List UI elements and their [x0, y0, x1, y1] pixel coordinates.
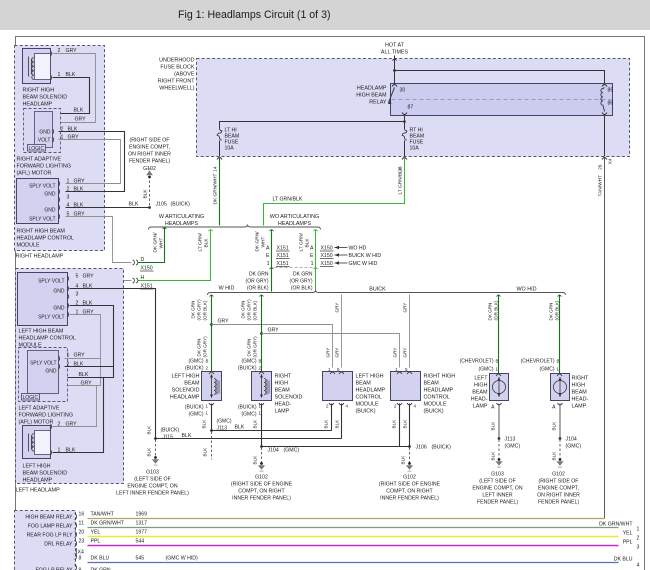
- svg-text:4: 4: [346, 404, 349, 409]
- svg-text:16: 16: [79, 512, 85, 518]
- svg-text:GRY: GRY: [75, 117, 87, 123]
- svg-text:J104: J104: [566, 437, 577, 443]
- ground wire dashed to G102 mid1: [261, 448, 263, 463]
- svg-text:DRL RELAY: DRL RELAY: [44, 542, 73, 548]
- module left high beam headlamp control module: [18, 273, 68, 326]
- svg-text:X151: X151: [277, 253, 289, 259]
- pin 8 DK BLU: [75, 554, 77, 560]
- label right high beam headlamp control module: [17, 229, 74, 249]
- svg-text:HEADLAMP: HEADLAMP: [356, 388, 386, 394]
- svg-text:B: B: [496, 359, 499, 364]
- svg-text:HEAD-: HEAD-: [471, 397, 488, 403]
- solenoid L2 RIGHT HIGH BEAM SOLENOID HEAD-LAMP: [252, 372, 272, 401]
- svg-text:(BUICK): (BUICK): [238, 405, 257, 411]
- svg-text:LAMP: LAMP: [572, 404, 587, 410]
- svg-text:1: 1: [58, 448, 61, 454]
- svg-text:(GMC): (GMC): [217, 419, 232, 425]
- svg-text:LEFT HIGH: LEFT HIGH: [171, 374, 199, 380]
- svg-text:GRY: GRY: [218, 319, 230, 325]
- bracket 2: [208, 290, 566, 295]
- svg-text:BEAM: BEAM: [472, 390, 488, 396]
- svg-text:1977: 1977: [136, 530, 148, 536]
- svg-text:LEFT HIGH: LEFT HIGH: [23, 464, 51, 470]
- svg-text:BLK: BLK: [392, 419, 397, 429]
- svg-text:RIGHT FRONT: RIGHT FRONT: [158, 79, 195, 85]
- svg-text:DK BLU: DK BLU: [91, 556, 110, 562]
- svg-text:BLK: BLK: [74, 187, 84, 193]
- relay U1 HEADLAMP HIGH BEAM RELAY: [356, 84, 612, 116]
- wire BLK solenoid pin1 loop: [53, 78, 90, 114]
- svg-text:DK GRN: DK GRN: [549, 303, 554, 321]
- AFL motor dashed box: [24, 109, 61, 153]
- connector exit carets: [217, 158, 222, 160]
- svg-text:COMPT, ON RIGHT: COMPT, ON RIGHT: [386, 489, 433, 495]
- wire from HOT AT ALL TIMES to relay pin 30: [394, 56, 396, 84]
- junction: [210, 323, 213, 326]
- wire DK GRN/WHT stack X151: [271, 230, 273, 292]
- junction: [260, 332, 263, 335]
- pin 86: [602, 113, 607, 115]
- box1 bottom pin wire: [209, 403, 214, 405]
- svg-text:LEFT ADAPTIVE: LEFT ADAPTIVE: [19, 406, 60, 412]
- node HOT AT ALL TIMES: [381, 43, 409, 56]
- svg-text:(OR BLK): (OR BLK): [555, 300, 560, 320]
- svg-text:RIGHT HIGH BEAM: RIGHT HIGH BEAM: [17, 229, 66, 235]
- underhood fuse block label: [158, 58, 195, 92]
- label lamp DS2: [572, 376, 589, 410]
- svg-text:5: 5: [76, 274, 79, 280]
- svg-text:1: 1: [206, 404, 209, 409]
- svg-text:LT GRN/BLK: LT GRN/BLK: [273, 197, 303, 203]
- svg-text:DK GRN: DK GRN: [293, 272, 313, 278]
- svg-text:CONTROL: CONTROL: [424, 395, 450, 401]
- svg-text:J113: J113: [505, 437, 516, 443]
- pin 3: [59, 197, 60, 202]
- svg-text:HEADLAMP: HEADLAMP: [424, 388, 454, 394]
- svg-text:(GMC): (GMC): [505, 444, 521, 450]
- svg-text:BLK: BLK: [235, 425, 245, 431]
- ground G103 mid-left: [154, 456, 157, 459]
- svg-text:HOT AT: HOT AT: [385, 43, 405, 49]
- connector X150 pin D: [133, 260, 138, 265]
- junction J106: [408, 445, 411, 448]
- svg-text:ENGINE COMPT, ON: ENGINE COMPT, ON: [127, 484, 177, 490]
- wire BLK module pin4 to J115: [70, 289, 156, 439]
- junction J115: [154, 437, 157, 440]
- option link dashed: [270, 268, 274, 269]
- junction J104 mid: [260, 445, 263, 448]
- svg-text:(ABOVE: (ABOVE: [174, 72, 195, 78]
- svg-text:BUICK W HID: BUICK W HID: [349, 253, 382, 259]
- svg-text:3: 3: [76, 292, 79, 298]
- svg-text:DK GRN: DK GRN: [191, 301, 196, 319]
- svg-text:(OR BLK): (OR BLK): [291, 286, 313, 292]
- svg-text:WHEELWELL): WHEELWELL): [159, 86, 194, 92]
- svg-text:BLK: BLK: [129, 202, 139, 208]
- svg-text:(OR GRY): (OR GRY): [253, 336, 258, 358]
- svg-text:(BUICK): (BUICK): [171, 202, 191, 208]
- svg-text:HEADLAMPS: HEADLAMPS: [165, 221, 199, 227]
- svg-text:BLK: BLK: [147, 425, 152, 435]
- svg-text:X150: X150: [141, 266, 153, 272]
- svg-text:LT GRN/BLK: LT GRN/BLK: [398, 166, 404, 194]
- svg-text:DK GRN: DK GRN: [249, 272, 269, 278]
- svg-text:G102: G102: [552, 472, 565, 478]
- svg-text:(GMC): (GMC): [566, 444, 582, 450]
- svg-text:X151: X151: [277, 246, 289, 252]
- svg-text:HEADLAMP: HEADLAMP: [23, 102, 53, 108]
- svg-text:2: 2: [326, 404, 329, 409]
- svg-text:MODULE: MODULE: [17, 243, 40, 249]
- svg-text:(AFL) MOTOR: (AFL) MOTOR: [17, 171, 52, 177]
- lamp DS1 bottom pin A wire: [497, 403, 502, 405]
- svg-text:(CHEVROLET): (CHEVROLET): [521, 359, 555, 365]
- wire GRY drop to box4 pin5: [409, 295, 411, 368]
- svg-text:BEAM SOLENOID: BEAM SOLENOID: [23, 95, 68, 101]
- svg-text:J115: J115: [163, 435, 174, 441]
- svg-text:BLK: BLK: [253, 455, 258, 465]
- svg-text:J105: J105: [156, 202, 167, 208]
- wire GRY module pin1 down: [68, 315, 101, 386]
- svg-text:GRY: GRY: [74, 353, 86, 359]
- svg-text:30: 30: [400, 88, 406, 94]
- wire LT GRN/BLK stack X150: [315, 230, 317, 292]
- wire BLK module pin2 down: [68, 306, 114, 378]
- logic box left: [22, 394, 40, 401]
- junction J104 right: [559, 437, 562, 440]
- svg-text:G102: G102: [143, 166, 156, 172]
- svg-text:GRY: GRY: [83, 274, 95, 280]
- svg-text:LEFT HIGH: LEFT HIGH: [356, 374, 384, 380]
- svg-text:A: A: [491, 405, 495, 411]
- svg-text:RIGHT HIGH: RIGHT HIGH: [23, 88, 55, 94]
- svg-text:1: 1: [267, 261, 270, 267]
- wire GRY drop to box3 pin5: [341, 295, 343, 368]
- wire DK GRN drop 2: [261, 295, 263, 372]
- svg-text:G103: G103: [491, 472, 504, 478]
- svg-text:DK GRN/: DK GRN/: [153, 232, 159, 253]
- svg-text:A: A: [266, 246, 270, 252]
- svg-text:(CHEVROLET): (CHEVROLET): [460, 359, 494, 365]
- label module M2: [424, 374, 456, 415]
- svg-text:ON RIGHT INNER: ON RIGHT INNER: [128, 152, 171, 158]
- svg-text:BLK: BLK: [74, 108, 84, 114]
- svg-text:SPLY VOLT: SPLY VOLT: [30, 361, 56, 367]
- svg-text:X4: X4: [608, 158, 614, 164]
- svg-text:(LEFT SIDE OF: (LEFT SIDE OF: [134, 477, 171, 483]
- svg-text:ENGINE COMPT, ON: ENGINE COMPT, ON: [472, 486, 522, 492]
- pin 4 BLK: [68, 286, 69, 291]
- option arrow BUICK W HID: [335, 254, 348, 256]
- svg-text:SOLENOID: SOLENOID: [275, 395, 303, 401]
- svg-text:RIGHT ADAPTIVE: RIGHT ADAPTIVE: [17, 157, 62, 163]
- svg-text:H: H: [141, 275, 145, 281]
- wire GRY branch 1 to box3 pin1: [212, 325, 333, 368]
- module right high beam headlamp control module: [17, 179, 59, 224]
- svg-text:GRY: GRY: [74, 179, 86, 185]
- svg-text:BEAM: BEAM: [424, 381, 440, 387]
- lamp DS1 LEFT HIGH BEAM HEADLAMP: [490, 374, 509, 401]
- svg-text:545: 545: [136, 556, 145, 562]
- svg-text:FORWARD LIGHTING: FORWARD LIGHTING: [19, 413, 74, 419]
- svg-text:26: 26: [598, 164, 604, 170]
- svg-text:1317: 1317: [136, 521, 148, 527]
- svg-text:FORWARD LIGHTING: FORWARD LIGHTING: [17, 164, 72, 170]
- svg-text:DK GRN: DK GRN: [241, 301, 246, 319]
- wire label DK GRN (OR GRY)(OR BLK) left stack: [246, 272, 269, 292]
- svg-text:3: 3: [637, 545, 640, 551]
- svg-text:HEADLAMP: HEADLAMP: [170, 395, 200, 401]
- fuse F2 RT HI BEAM FUSE 10A: [402, 129, 407, 141]
- svg-text:HIGH: HIGH: [474, 383, 488, 389]
- pin 87: [402, 113, 407, 115]
- svg-text:(OR BLK): (OR BLK): [203, 300, 208, 320]
- module M2 pin2 wire: [397, 403, 412, 405]
- svg-text:HIGH BEAM: HIGH BEAM: [356, 93, 387, 99]
- svg-text:GND: GND: [45, 369, 57, 375]
- svg-text:1: 1: [206, 411, 209, 416]
- svg-text:WO HD: WO HD: [349, 246, 367, 252]
- svg-text:BLK: BLK: [253, 419, 258, 429]
- svg-text:BLK: BLK: [552, 421, 557, 431]
- svg-text:DK GRN/WHT: DK GRN/WHT: [213, 174, 219, 205]
- svg-text:GND: GND: [44, 208, 56, 214]
- svg-text:FENDER PANEL): FENDER PANEL): [477, 500, 518, 506]
- svg-text:HIGH: HIGH: [275, 381, 289, 387]
- ground G102 right: [559, 458, 562, 461]
- pin 30: [392, 85, 397, 87]
- svg-text:11: 11: [79, 521, 84, 527]
- svg-text:DK GRN: DK GRN: [247, 339, 252, 357]
- pin 5 GRY: [59, 214, 60, 219]
- svg-text:DK GRN: DK GRN: [488, 303, 493, 321]
- ground wire dashed to G102 mid2: [409, 448, 411, 463]
- connector X151 pin H: [133, 278, 138, 283]
- svg-text:GND: GND: [53, 289, 65, 295]
- svg-text:DK BLU: DK BLU: [614, 557, 633, 563]
- svg-text:PPL: PPL: [623, 540, 633, 546]
- label left adaptive forward lighting (AFL) motor: [19, 406, 74, 426]
- svg-text:544: 544: [136, 539, 145, 545]
- svg-text:10A: 10A: [410, 146, 420, 152]
- svg-text:B: B: [557, 359, 560, 364]
- bus BLK J104 to J106: [262, 446, 410, 448]
- svg-text:(RIGHT SIDE OF: (RIGHT SIDE OF: [539, 479, 579, 485]
- solenoid coil right high beam solenoid headlamp: [23, 49, 51, 84]
- solenoid L1 LEFT HIGH BEAM SOLENOID HEADLAMP: [202, 372, 222, 401]
- svg-text:TAN/WHT: TAN/WHT: [91, 512, 115, 518]
- wire DK GRN drop to right hi beam headlamp: [559, 295, 561, 374]
- svg-text:X150: X150: [321, 253, 333, 259]
- solenoid coil left high beam solenoid headlamp: [23, 426, 51, 459]
- svg-text:(BUICK): (BUICK): [356, 409, 376, 415]
- ground G103 right: [498, 458, 501, 461]
- pin 2 GRY: [51, 51, 52, 56]
- fuse F1 LT HI BEAM FUSE 10A: [217, 129, 222, 141]
- svg-text:E: E: [310, 253, 314, 259]
- bus BLK J113 to module M1 pin2: [212, 430, 332, 432]
- svg-text:TAN/WHT: TAN/WHT: [598, 175, 604, 197]
- svg-text:SPLY VOLT: SPLY VOLT: [29, 184, 55, 190]
- svg-text:G102: G102: [255, 475, 268, 481]
- svg-text:WO HID: WO HID: [516, 287, 536, 293]
- svg-text:BEAM: BEAM: [356, 381, 372, 387]
- module M1 pin2 wire: [329, 403, 344, 405]
- svg-text:3: 3: [67, 195, 70, 201]
- pin 5 GRY: [68, 276, 69, 281]
- svg-text:BLK: BLK: [491, 451, 496, 461]
- svg-text:1: 1: [67, 353, 70, 359]
- svg-text:1969: 1969: [136, 512, 148, 518]
- svg-text:(AFL) MOTOR: (AFL) MOTOR: [19, 420, 54, 426]
- svg-text:E: E: [266, 253, 270, 259]
- svg-text:(OR GRY): (OR GRY): [203, 336, 208, 358]
- svg-text:ENGINE COMPT,: ENGINE COMPT,: [129, 145, 170, 151]
- svg-text:4: 4: [414, 404, 417, 409]
- svg-text:BLK: BLK: [401, 455, 406, 465]
- header bar: [0, 0, 650, 30]
- svg-text:BLK: BLK: [403, 419, 408, 429]
- svg-text:LEFT HEADLAMP: LEFT HEADLAMP: [16, 488, 61, 494]
- wire TAN/WHT vertical: [604, 158, 606, 519]
- label left high beam headlamp control module: [19, 329, 76, 349]
- module M2 pin4 wire: [409, 404, 411, 447]
- label solenoid L1: [170, 374, 200, 401]
- svg-text:G103: G103: [146, 470, 159, 476]
- svg-text:(OR GRY): (OR GRY): [290, 279, 313, 285]
- svg-text:BLK: BLK: [79, 372, 89, 378]
- ground G102 mid2: [408, 462, 411, 465]
- svg-text:COMPT, ON RIGHT: COMPT, ON RIGHT: [238, 489, 285, 495]
- wire GRY module-left pin5 to X151: [70, 280, 132, 282]
- svg-text:B: B: [259, 359, 262, 364]
- svg-text:LEFT INNER FENDER PANEL): LEFT INNER FENDER PANEL): [116, 491, 189, 497]
- svg-text:HEADLAMPS: HEADLAMPS: [278, 221, 312, 227]
- svg-text:UNDERHOOD: UNDERHOOD: [159, 58, 194, 64]
- svg-text:HEAD-: HEAD-: [275, 402, 292, 408]
- svg-text:INNER FENDER PANEL): INNER FENDER PANEL): [232, 496, 291, 502]
- label right adaptive forward lighting (AFL) motor: [17, 157, 72, 177]
- wire GRY row to solenoid: [53, 386, 97, 427]
- svg-text:SPLY VOLT: SPLY VOLT: [38, 279, 64, 285]
- wire LT GRN/BLK from fuse F2: [264, 158, 405, 226]
- junction J113 mid: [210, 429, 213, 432]
- pin 1 GRY: [59, 181, 60, 186]
- svg-text:BLK: BLK: [147, 447, 152, 457]
- svg-text:(LEFT SIDE OF: (LEFT SIDE OF: [479, 479, 516, 485]
- svg-text:LEFT: LEFT: [474, 376, 488, 382]
- svg-text:(GMC): (GMC): [189, 359, 204, 365]
- svg-text:FENDER PANEL): FENDER PANEL): [129, 159, 170, 165]
- pin 4 BLK: [59, 205, 60, 210]
- svg-text:HIGH: HIGH: [572, 383, 586, 389]
- svg-text:20: 20: [79, 530, 85, 536]
- svg-text:1: 1: [311, 261, 314, 267]
- label lamp DS1: [471, 376, 488, 410]
- svg-text:BEAM: BEAM: [275, 388, 291, 394]
- svg-text:REAR FOG LP RLY: REAR FOG LP RLY: [27, 533, 73, 539]
- svg-text:GRY: GRY: [335, 348, 340, 358]
- svg-text:A: A: [310, 246, 314, 252]
- svg-text:BLK: BLK: [552, 451, 557, 461]
- svg-text:GMC W HID: GMC W HID: [349, 261, 378, 267]
- svg-text:DK GRN/: DK GRN/: [255, 231, 261, 252]
- svg-text:YEL: YEL: [623, 531, 633, 537]
- pin 2 BLK: [68, 303, 69, 308]
- svg-text:HEADLAMP: HEADLAMP: [357, 86, 387, 92]
- label solenoid L2: [275, 374, 303, 415]
- svg-text:ALL TIMES: ALL TIMES: [381, 50, 409, 56]
- svg-text:4: 4: [637, 563, 640, 569]
- svg-text:X150: X150: [321, 261, 333, 267]
- ground G102 top: [148, 176, 151, 179]
- pin 1 BLK: [51, 75, 52, 80]
- svg-text:YEL: YEL: [91, 530, 101, 536]
- svg-text:(OR GRY): (OR GRY): [197, 299, 202, 321]
- svg-text:RELAY: RELAY: [369, 100, 387, 106]
- svg-text:23: 23: [79, 539, 85, 545]
- pin 85: [602, 85, 607, 87]
- svg-text:LT GRN/: LT GRN/: [299, 232, 305, 251]
- wire DK GRN drop 1: [211, 295, 213, 372]
- svg-text:RIGHT: RIGHT: [572, 376, 589, 382]
- wire label DK GRN (OR GRY)(OR BLK) right stack: [290, 272, 313, 292]
- wire pin 87 to fuses: [404, 116, 406, 129]
- svg-text:GRY: GRY: [403, 348, 408, 358]
- relay switch arm: [389, 88, 395, 103]
- label right high beam solenoid headlamp: [23, 88, 68, 108]
- relay coil 85-86: [601, 88, 605, 112]
- svg-text:FUSE BLOCK: FUSE BLOCK: [160, 65, 195, 71]
- svg-text:GRY: GRY: [393, 348, 398, 358]
- svg-text:MODULE: MODULE: [424, 402, 447, 408]
- svg-text:B: B: [206, 359, 209, 364]
- svg-text:LEFT HIGH BEAM: LEFT HIGH BEAM: [19, 329, 64, 335]
- svg-text:HEAD-: HEAD-: [572, 397, 589, 403]
- wire GRY solenoid pin2 loop: [53, 54, 96, 123]
- svg-text:RIGHT: RIGHT: [275, 374, 292, 380]
- wire LT GRN/BLK drop to X151: [138, 230, 211, 281]
- svg-text:DK GRN: DK GRN: [197, 339, 202, 357]
- bracket 1: [149, 225, 321, 230]
- junction J105: [148, 206, 151, 209]
- svg-text:1: 1: [637, 527, 640, 533]
- svg-text:(RIGHT SIDE OF ENGINE: (RIGHT SIDE OF ENGINE: [379, 482, 441, 488]
- svg-text:(OR GRY): (OR GRY): [247, 299, 252, 321]
- svg-text:(GMC): (GMC): [242, 359, 257, 365]
- svg-text:ENGINE COMPT,: ENGINE COMPT,: [538, 486, 579, 492]
- svg-text:2: 2: [394, 404, 397, 409]
- AFL motor dashed box left: [19, 348, 68, 402]
- svg-text:RIGHT HIGH: RIGHT HIGH: [424, 374, 456, 380]
- module M1 pin4 wire to bus2: [341, 404, 343, 439]
- svg-text:HEADLAMP: HEADLAMP: [23, 478, 53, 484]
- svg-text:(BUICK): (BUICK): [161, 428, 180, 434]
- svg-text:LT GRN/: LT GRN/: [198, 232, 204, 251]
- svg-text:FENDER PANEL): FENDER PANEL): [538, 500, 579, 506]
- svg-text:10A: 10A: [225, 146, 235, 152]
- svg-text:ON RIGHT INNER: ON RIGHT INNER: [537, 493, 580, 499]
- svg-text:GRY: GRY: [403, 303, 408, 313]
- svg-text:(BUICK): (BUICK): [432, 445, 452, 451]
- left headlamp dashed box: [16, 269, 124, 484]
- junction: [393, 69, 396, 72]
- svg-text:GND: GND: [44, 192, 56, 198]
- bus BLK J115 to module M1 pin4: [156, 438, 342, 440]
- svg-text:BLK: BLK: [182, 433, 192, 439]
- pin 3: [68, 294, 69, 299]
- svg-text:GRY: GRY: [335, 303, 340, 313]
